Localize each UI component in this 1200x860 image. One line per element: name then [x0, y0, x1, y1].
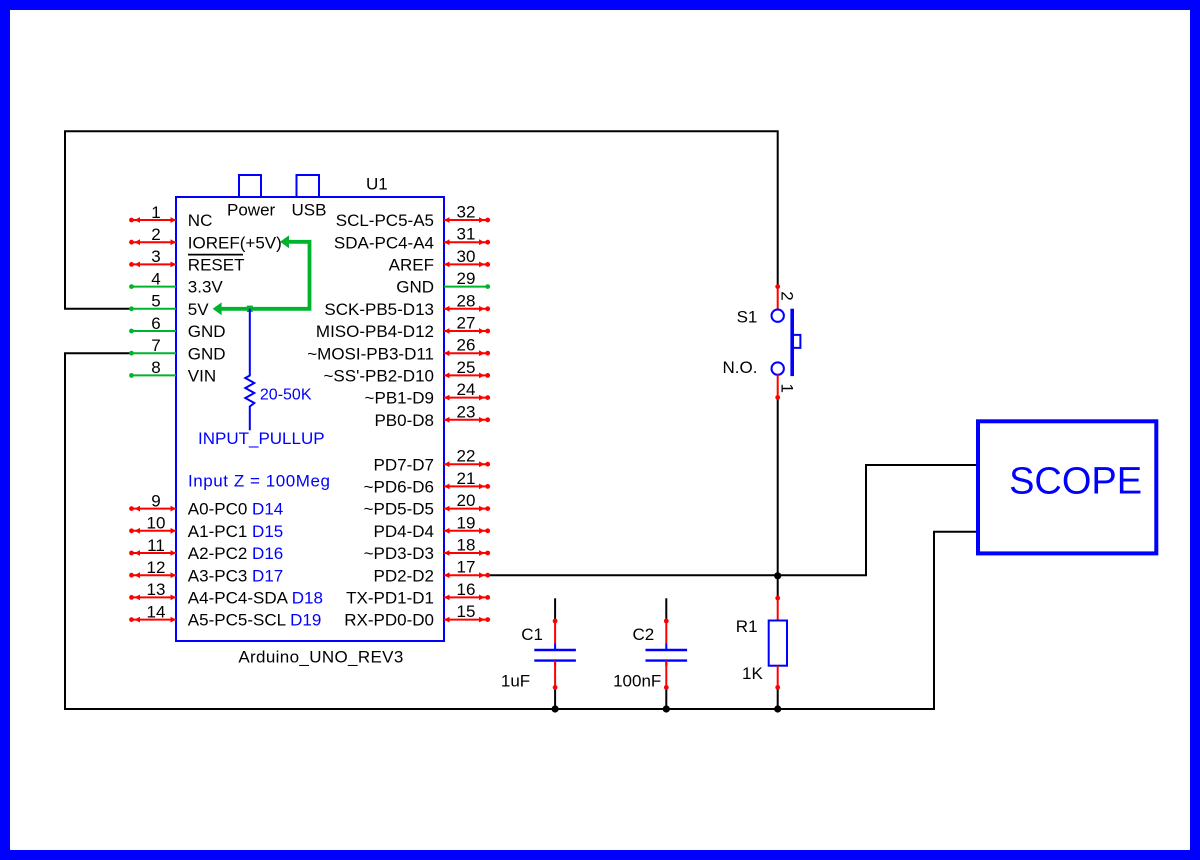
svg-text:A3-PC3 D17: A3-PC3 D17 [188, 566, 283, 585]
svg-text:100nF: 100nF [613, 672, 661, 691]
junction switch/R1/scope node [774, 572, 781, 579]
node switch pin2 dot [775, 284, 780, 289]
svg-text:~SS'-PB2-D10: ~SS'-PB2-D10 [324, 367, 435, 386]
svg-text:29: 29 [457, 269, 476, 288]
svg-text:18: 18 [457, 536, 476, 555]
svg-text:1uF: 1uF [501, 672, 530, 691]
pin 14 stub (left) [129, 602, 176, 622]
svg-text:GND: GND [188, 344, 226, 363]
wire 5V net: pin5 to top loop to switch pin2 [65, 131, 778, 308]
pin 4 stub (left) [129, 269, 176, 289]
svg-text:GND: GND [188, 322, 226, 341]
svg-text:2: 2 [151, 225, 160, 244]
svg-text:12: 12 [147, 558, 166, 577]
svg-text:7: 7 [151, 336, 160, 355]
wire green 5V feedback [220, 242, 310, 309]
svg-text:U1: U1 [366, 174, 388, 193]
svg-text:C1: C1 [521, 625, 543, 644]
pin 15 stub (right) [444, 602, 490, 622]
pin 29 stub (right) [444, 269, 490, 289]
svg-text:10: 10 [147, 514, 166, 533]
pin 3 stub (left) [129, 247, 176, 267]
svg-text:C2: C2 [632, 625, 654, 644]
junction C1 ground [552, 705, 559, 712]
svg-text:9: 9 [151, 491, 160, 510]
junction C2 ground [663, 705, 670, 712]
svg-text:PB0-D8: PB0-D8 [374, 411, 434, 430]
connector USB box [297, 175, 320, 197]
pin 5 stub (left) [129, 292, 176, 312]
pin 2 stub (left) [129, 225, 176, 245]
svg-text:22: 22 [457, 447, 476, 466]
svg-text:~PD6-D6: ~PD6-D6 [364, 478, 434, 497]
pin 1 stub (left) [129, 203, 176, 223]
svg-text:A1-PC1 D15: A1-PC1 D15 [188, 522, 283, 541]
scope box [978, 421, 1156, 553]
svg-text:~MOSI-PB3-D11: ~MOSI-PB3-D11 [307, 344, 434, 363]
svg-text:20-50K: 20-50K [260, 387, 312, 404]
svg-text:PD4-D4: PD4-D4 [374, 522, 434, 541]
svg-text:11: 11 [147, 536, 165, 555]
wire C1 bottom to ground rail [554, 687, 556, 709]
switch S1 contact bottom [772, 362, 784, 374]
svg-text:INPUT_PULLUP: INPUT_PULLUP [198, 429, 325, 448]
svg-text:S1: S1 [737, 307, 758, 326]
svg-text:21: 21 [457, 469, 476, 488]
pin 21 stub (right) [444, 469, 490, 489]
svg-text:MISO-PB4-D12: MISO-PB4-D12 [316, 322, 434, 341]
wire red switch top lead [777, 287, 779, 310]
svg-text:16: 16 [457, 580, 476, 599]
wire C2 top stub [665, 598, 667, 621]
pin 13 stub (left) [129, 580, 176, 600]
svg-text:A2-PC2 D16: A2-PC2 D16 [188, 544, 283, 563]
overline RESET [188, 254, 243, 256]
svg-text:USB: USB [292, 200, 327, 219]
pin 31 stub (right) [444, 225, 490, 245]
svg-text:Power: Power [227, 200, 276, 219]
svg-text:4: 4 [151, 269, 160, 288]
svg-text:23: 23 [457, 402, 476, 421]
svg-text:RX-PD0-D0: RX-PD0-D0 [344, 611, 434, 630]
svg-text:5: 5 [151, 292, 160, 311]
svg-text:26: 26 [457, 336, 476, 355]
svg-text:24: 24 [457, 380, 476, 399]
svg-text:2: 2 [777, 291, 796, 300]
capacitor C2 [646, 619, 688, 690]
switch S1 contact top [772, 310, 784, 322]
svg-text:28: 28 [457, 291, 476, 310]
svg-text:20: 20 [457, 491, 476, 510]
svg-text:14: 14 [147, 602, 166, 621]
pin 22 stub (right) [444, 447, 490, 467]
wire switch bottom to R1 top [777, 398, 779, 599]
svg-text:NC: NC [188, 211, 213, 230]
pin 28 stub (right) [444, 291, 490, 311]
svg-text:~PB1-D9: ~PB1-D9 [365, 389, 434, 408]
pin 27 stub (right) [444, 314, 490, 334]
svg-text:SDA-PC4-A4: SDA-PC4-A4 [334, 233, 434, 252]
switch S1 actuator bar [790, 309, 794, 376]
pin 19 stub (right) [444, 513, 490, 533]
svg-text:GND: GND [396, 278, 434, 297]
pin 16 stub (right) [444, 580, 490, 600]
wire red switch bottom lead [777, 374, 779, 397]
svg-text:3: 3 [151, 247, 160, 266]
svg-text:N.O.: N.O. [723, 358, 758, 377]
svg-text:1: 1 [151, 203, 160, 222]
svg-text:~PD5-D5: ~PD5-D5 [364, 500, 434, 519]
pin 20 stub (right) [444, 491, 490, 511]
svg-text:5V: 5V [188, 300, 209, 319]
pin 18 stub (right) [444, 536, 490, 556]
pin 12 stub (left) [129, 558, 176, 578]
wire signal net: pin17 to scope upper pin [488, 465, 978, 575]
svg-text:IOREF(+5V): IOREF(+5V) [188, 233, 282, 252]
svg-text:PD2-D2: PD2-D2 [374, 566, 434, 585]
svg-text:13: 13 [147, 580, 166, 599]
svg-text:RESET: RESET [188, 256, 245, 275]
pin 7 stub (left) [129, 336, 176, 356]
svg-text:Arduino_UNO_REV3: Arduino_UNO_REV3 [238, 647, 403, 666]
svg-text:SCL-PC5-A5: SCL-PC5-A5 [336, 211, 434, 230]
pin 30 stub (right) [444, 247, 490, 267]
pin 26 stub (right) [444, 336, 490, 356]
arrowhead green at 5V [213, 302, 222, 315]
pin 23 stub (right) [444, 402, 490, 422]
wire C2 bottom to ground rail [665, 687, 667, 709]
pin 10 stub (left) [129, 514, 176, 534]
connector Power box [239, 175, 261, 197]
resistor 20-50K internal pullup [245, 309, 254, 431]
svg-text:27: 27 [457, 314, 476, 333]
svg-text:PD7-D7: PD7-D7 [374, 455, 434, 474]
wire GND net: pin7 left-down-bottom to scope lower pin [65, 353, 978, 709]
op chip U1 Arduino body [176, 197, 444, 641]
svg-text:A4-PC4-SDA D18: A4-PC4-SDA D18 [188, 589, 323, 608]
svg-text:SCOPE: SCOPE [1009, 460, 1142, 502]
capacitor C1 [534, 619, 576, 690]
svg-text:VIN: VIN [188, 367, 216, 386]
resistor R1 [769, 596, 787, 690]
svg-text:17: 17 [457, 558, 476, 577]
arrowhead green at IOREF [280, 235, 289, 248]
svg-text:31: 31 [457, 225, 476, 244]
svg-text:R1: R1 [736, 617, 758, 636]
svg-text:AREF: AREF [389, 256, 434, 275]
svg-text:30: 30 [457, 247, 476, 266]
wire C1 top stub [554, 598, 556, 621]
pin 32 stub (right) [444, 203, 490, 223]
pin 25 stub (right) [444, 358, 490, 378]
switch S1 plunger [794, 335, 800, 348]
pin 17 stub (right) [444, 558, 490, 578]
junction green resistor tap [247, 306, 253, 312]
node switch pin1 dot [775, 395, 780, 400]
svg-text:32: 32 [457, 203, 476, 222]
svg-text:8: 8 [151, 358, 160, 377]
pin 8 stub (left) [129, 358, 176, 378]
svg-text:A0-PC0 D14: A0-PC0 D14 [188, 500, 283, 519]
svg-text:TX-PD1-D1: TX-PD1-D1 [346, 589, 434, 608]
svg-text:SCK-PB5-D13: SCK-PB5-D13 [324, 300, 434, 319]
wire R1 bottom to ground rail [777, 687, 779, 709]
svg-text:25: 25 [457, 358, 476, 377]
pin 11 stub (left) [129, 536, 176, 556]
svg-text:1K: 1K [742, 664, 763, 683]
pin 9 stub (left) [129, 491, 176, 511]
svg-text:~PD3-D3: ~PD3-D3 [364, 544, 434, 563]
svg-text:15: 15 [457, 602, 476, 621]
junction R1 ground [774, 705, 781, 712]
pin 6 stub (left) [129, 314, 176, 334]
svg-text:A5-PC5-SCL D19: A5-PC5-SCL D19 [188, 611, 322, 630]
svg-text:Input Z = 100Meg: Input Z = 100Meg [188, 472, 331, 491]
pin 24 stub (right) [444, 380, 490, 400]
svg-text:19: 19 [457, 513, 476, 532]
svg-text:3.3V: 3.3V [188, 278, 224, 297]
svg-text:1: 1 [777, 384, 796, 393]
svg-text:6: 6 [151, 314, 160, 333]
